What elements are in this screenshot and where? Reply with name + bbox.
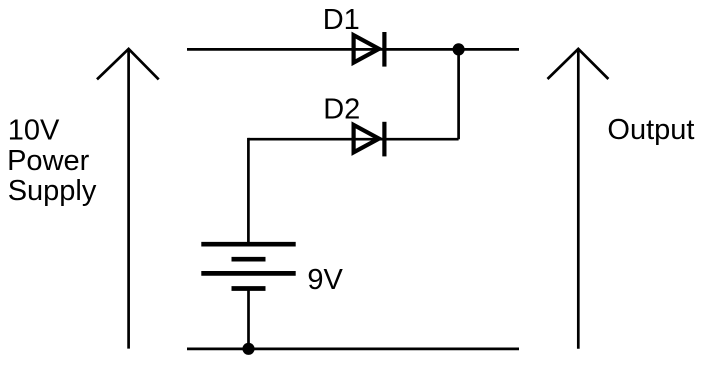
wire: top rail <box>187 48 519 51</box>
svg-text:Output: Output <box>607 114 694 146</box>
svg-text:Supply: Supply <box>8 175 97 207</box>
svg-text:D1: D1 <box>323 4 360 36</box>
wire: junction down to D2 output <box>457 49 460 139</box>
wire: bottom rail <box>187 348 519 351</box>
wire: battery - down to bottom rail <box>247 289 250 350</box>
diode D1 <box>354 32 385 67</box>
svg-text:Power: Power <box>7 145 90 177</box>
label: 10V Power Supply <box>7 115 97 208</box>
diode D2 <box>354 122 385 157</box>
svg-text:9V: 9V <box>307 264 343 296</box>
wire: D2 corner down to battery + <box>247 138 250 246</box>
svg-text:10V: 10V <box>8 115 60 147</box>
node: junction bottom (battery to bottom rail) <box>242 343 254 355</box>
svg-text:D2: D2 <box>323 94 360 126</box>
arrow: output indicator <box>548 49 609 349</box>
node: junction top (D1/D2 outputs) <box>453 43 465 55</box>
arrow: 10V power supply indicator <box>97 49 159 349</box>
battery B1 9V <box>201 244 295 288</box>
wire: D2 branch horizontal <box>248 138 458 141</box>
